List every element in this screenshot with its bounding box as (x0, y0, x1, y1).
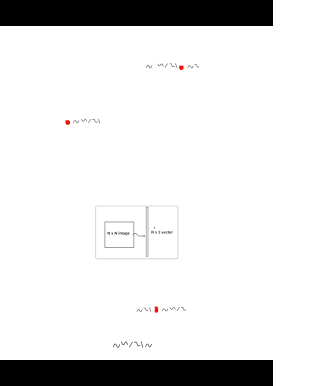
N x N image box (105, 222, 134, 248)
handwriting snippet T2 (right of laser dot R2) (74, 119, 100, 123)
svg-text:N x 1 vector: N x 1 vector (151, 231, 173, 235)
handwriting snippet T5 (bottom line) (114, 342, 152, 348)
squiggle arrow from box to vector bar (133, 233, 144, 236)
top letterbox bar (0, 0, 273, 26)
handwriting snippet T4b (right of laser dot R3) (163, 307, 186, 311)
handwriting snippet T4a (left of laser dot R3) (137, 308, 151, 312)
handwriting snippet T1b (right of laser dot R1) (188, 64, 199, 68)
laser pointer dot R1 (179, 66, 183, 70)
figure card (pasted white image snippet with faint border) (96, 206, 178, 259)
bottom letterbox bar (0, 360, 273, 386)
laser pointer dot R3 (155, 307, 159, 313)
handwriting snippet T1 (left of laser dot R1) (147, 64, 178, 68)
svg-text:N x N image: N x N image (107, 231, 130, 236)
N^2 x 1 vector bar (thin tall rectangle) (146, 207, 148, 256)
laser pointer dot R2 (66, 120, 71, 125)
